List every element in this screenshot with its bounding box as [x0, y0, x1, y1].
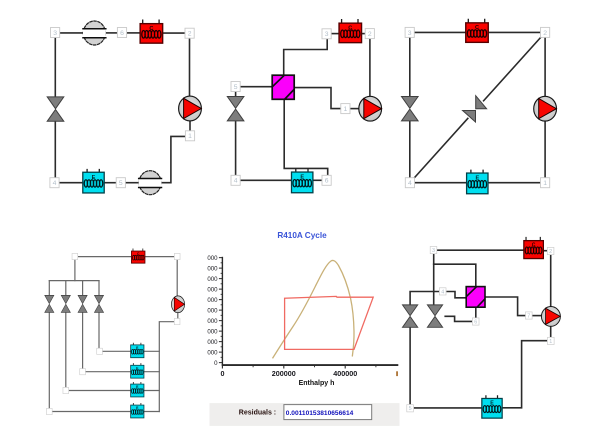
internal heat exchanger HX2	[466, 287, 485, 308]
pump P1	[179, 96, 202, 121]
wire valve V1 to node4	[54, 121, 56, 178]
svg-text:6: 6	[474, 319, 477, 325]
wire node3 down to valve V3	[409, 37, 411, 97]
node 5	[231, 82, 240, 92]
wire manifold to valve V6	[65, 281, 67, 296]
pump P2	[359, 96, 382, 121]
wire node6 to condenser C1	[127, 32, 141, 34]
wire node1 to pipe2	[161, 136, 185, 182]
svg-text:5: 5	[409, 406, 412, 412]
wire evaporator E1 to node4	[59, 182, 83, 184]
diagonal wire node4 to valve V4	[413, 118, 468, 179]
svg-text:1: 1	[188, 133, 192, 140]
wire condenser C6 to node2	[543, 250, 546, 252]
wire pipe2 to node5	[125, 182, 139, 184]
valve V7	[78, 295, 87, 312]
node e2	[80, 369, 86, 375]
evaporator E4c	[131, 382, 144, 397]
svg-text:000: 000	[207, 255, 218, 262]
svg-text:3: 3	[432, 248, 435, 254]
wire node e4 to evaporator E4d	[52, 411, 131, 413]
wire valve V6 to node e3	[65, 312, 67, 387]
pipe component top	[83, 21, 106, 45]
svg-text:000: 000	[207, 339, 218, 346]
x axis labels	[221, 369, 358, 378]
svg-text:000: 000	[207, 318, 218, 325]
node top-right	[174, 253, 180, 259]
wire node3 to condenser C2	[331, 33, 340, 35]
manifold wire	[49, 280, 99, 282]
wire evaporator E4d to bus	[144, 411, 160, 413]
pump P6	[541, 306, 560, 326]
wire pump P4 to its node	[177, 313, 179, 319]
node 4	[231, 175, 240, 185]
node 1	[547, 337, 554, 345]
evaporator E1	[83, 170, 104, 193]
svg-text:200000: 200000	[272, 369, 296, 378]
svg-text:3: 3	[325, 31, 329, 38]
svg-text:400000: 400000	[333, 369, 357, 378]
svg-text:1: 1	[549, 339, 552, 345]
residuals input box	[284, 405, 372, 420]
evaporator E2	[292, 169, 313, 192]
wire valve V9 down to node5	[409, 327, 411, 403]
wire pump P6 to node1	[550, 326, 552, 337]
wire node4 to HX2 left port	[447, 292, 466, 298]
wire valve V3 to node4	[409, 121, 411, 178]
svg-text:1: 1	[344, 106, 348, 113]
wire node2 down to pump P1	[189, 38, 191, 97]
node 2	[185, 28, 194, 38]
wire HX2 right port to node7	[485, 297, 525, 316]
valve V6	[61, 295, 70, 312]
valve V3	[402, 97, 419, 121]
svg-text:6: 6	[120, 30, 124, 37]
svg-text:000: 000	[207, 350, 218, 357]
y axis minor ticks	[221, 263, 223, 358]
condenser C4	[131, 249, 145, 263]
node 2	[541, 27, 550, 37]
wire HX top port to node3	[284, 39, 328, 75]
wire node3 down to valve V10 with branch to HX2 top	[433, 255, 435, 305]
clipped right label mark	[396, 371, 398, 376]
wire node5 down to valve V2	[235, 91, 237, 96]
svg-text:2: 2	[188, 31, 192, 38]
pipe component bottom	[139, 171, 162, 195]
svg-text:Enthalpy h: Enthalpy h	[299, 380, 335, 387]
wire valve V9 up to node4	[410, 292, 439, 306]
node 1	[541, 178, 550, 188]
svg-text:2: 2	[549, 249, 552, 255]
node e3	[63, 387, 69, 393]
valve V2	[227, 97, 244, 121]
wire node1 to pump P2	[350, 108, 359, 110]
diagonal wire valve V4 to node2	[484, 36, 543, 101]
valve V1	[47, 97, 64, 121]
node 5	[407, 405, 414, 413]
wire pipe1 to node6	[105, 32, 118, 34]
svg-text:2: 2	[368, 31, 372, 38]
node 2	[547, 247, 554, 255]
svg-text:5: 5	[234, 84, 238, 91]
wire manifold to valve V5	[48, 281, 50, 296]
valve V8	[94, 295, 103, 312]
svg-text:R410A Cycle: R410A Cycle	[277, 231, 327, 240]
wire node e1 to evaporator E4a	[102, 350, 131, 352]
wire HX bottom port to node6	[284, 99, 328, 175]
wire node7 to pump P6	[533, 315, 542, 317]
evaporator E4b	[131, 364, 144, 379]
svg-text:1: 1	[543, 180, 547, 187]
evaporator E6	[482, 396, 502, 418]
evaporator E4a	[131, 343, 144, 358]
svg-text:Residuals :: Residuals :	[239, 409, 276, 416]
wire evaporator E2 to node6	[314, 179, 322, 181]
residuals gray bar	[210, 403, 400, 426]
valve V4 diagonal	[463, 96, 487, 122]
node 7	[525, 312, 532, 320]
node 3	[430, 247, 437, 255]
y axis line	[221, 257, 223, 365]
svg-text:7: 7	[527, 313, 530, 319]
node e4	[46, 408, 52, 414]
svg-text:4: 4	[441, 289, 444, 295]
svg-text:2: 2	[543, 30, 547, 37]
node 4	[405, 178, 414, 188]
node 3	[322, 29, 331, 39]
node 2	[365, 29, 374, 39]
valve V9	[402, 305, 417, 327]
wire condenser C3 to node2	[489, 31, 541, 33]
pump P4	[171, 296, 184, 313]
wire manifold to valve V8	[98, 281, 100, 296]
node 3	[51, 28, 60, 38]
node 6	[472, 318, 479, 326]
svg-text:0.00110153810656614: 0.00110153810656614	[286, 410, 354, 417]
saturation dome curve	[273, 260, 355, 358]
node 4	[439, 288, 446, 296]
svg-text:4: 4	[408, 180, 412, 187]
valve V10	[427, 305, 442, 327]
wire node2 down to pump P3	[544, 37, 546, 96]
svg-text:0: 0	[221, 369, 225, 378]
node below pump	[174, 319, 180, 325]
wire HX2 bottom port to node6	[475, 307, 477, 317]
evaporator E4d	[131, 403, 144, 418]
wire evaporator E4b to bus	[144, 371, 160, 373]
svg-text:3: 3	[53, 30, 57, 37]
y axis major ticks	[219, 258, 223, 363]
wire valve V5 to node e4	[48, 312, 50, 408]
wire node3 to condenser C6	[437, 249, 524, 251]
wire node5 to HX left port	[240, 86, 272, 88]
wire top-right node down to pump P4	[176, 259, 178, 296]
wire evaporator E3 to node1	[489, 182, 541, 184]
node 6	[322, 175, 331, 185]
wire condenser C4 to top-right node	[145, 256, 175, 258]
node 3	[405, 27, 414, 37]
node 6	[117, 28, 126, 38]
condenser C1	[140, 20, 163, 43]
wire pump P3 to node1	[544, 121, 546, 178]
wire node3 down to valve V1	[54, 38, 56, 97]
svg-text:000: 000	[207, 266, 218, 273]
refrigeration cycle polygon	[285, 296, 374, 349]
wire HX right port to node1	[294, 88, 341, 109]
condenser C3	[466, 19, 489, 42]
wire top node down to manifold	[74, 259, 76, 280]
svg-text:4: 4	[234, 178, 238, 185]
wire condenser C2 to node2	[361, 33, 366, 35]
node 4	[50, 178, 59, 188]
node 5	[116, 178, 125, 188]
wire node3 to pipe1	[60, 32, 85, 34]
wire node4 to evaporator E3	[414, 182, 466, 184]
wire branch to HX2 top port	[434, 264, 476, 287]
node 1	[185, 131, 194, 141]
wire valve V7 to node e2	[82, 312, 84, 368]
wire evaporator E4a to bus	[144, 350, 160, 352]
wire node1 to evaporator E6 right side	[503, 341, 547, 408]
condenser C2	[339, 20, 362, 43]
wire condenser C1 to node2	[162, 32, 185, 34]
condenser C6	[524, 237, 544, 258]
wire node e3 to evaporator E4c	[69, 390, 131, 392]
wire node6 elbow stub	[445, 316, 471, 321]
wire evaporator E4c to bus	[144, 390, 160, 392]
svg-text:6: 6	[325, 178, 329, 185]
svg-text:000: 000	[207, 287, 218, 294]
wire evaporator E6 to node5	[415, 407, 482, 409]
wire node e2 to evaporator E4b	[86, 371, 132, 373]
bus wire to pump node	[159, 322, 174, 412]
wire node5 to evaporator E1	[104, 182, 117, 184]
pump P3	[534, 96, 557, 121]
wire manifold to valve V7	[82, 281, 84, 296]
wire valve V8 to node e1	[98, 312, 100, 348]
x axis minor ticks	[253, 365, 376, 367]
node e1	[97, 348, 103, 354]
svg-text:000: 000	[207, 297, 218, 304]
wire top node to condenser C4	[78, 256, 132, 258]
wire node2 down to pump P2	[369, 38, 371, 96]
node top-left	[72, 253, 78, 259]
internal heat exchanger HX1	[272, 75, 294, 99]
wire valve V2 to node4	[235, 121, 237, 176]
svg-text:3: 3	[408, 30, 412, 37]
svg-text:000: 000	[207, 308, 218, 315]
wire node3 to condenser C3	[414, 31, 465, 33]
svg-text:4: 4	[53, 180, 57, 187]
wire node2 down to pump P6	[550, 256, 552, 308]
svg-text:000: 000	[207, 329, 218, 336]
svg-text:000: 000	[207, 276, 218, 283]
y axis labels	[207, 255, 218, 367]
x axis line	[222, 364, 399, 366]
evaporator E3	[467, 170, 488, 193]
wire pump P1 to node1	[189, 121, 191, 131]
svg-text:5: 5	[119, 180, 123, 187]
x axis major ticks	[222, 365, 345, 368]
valve V5	[45, 295, 54, 312]
node 1	[341, 104, 350, 114]
wire node4 to evaporator E2	[240, 179, 291, 181]
